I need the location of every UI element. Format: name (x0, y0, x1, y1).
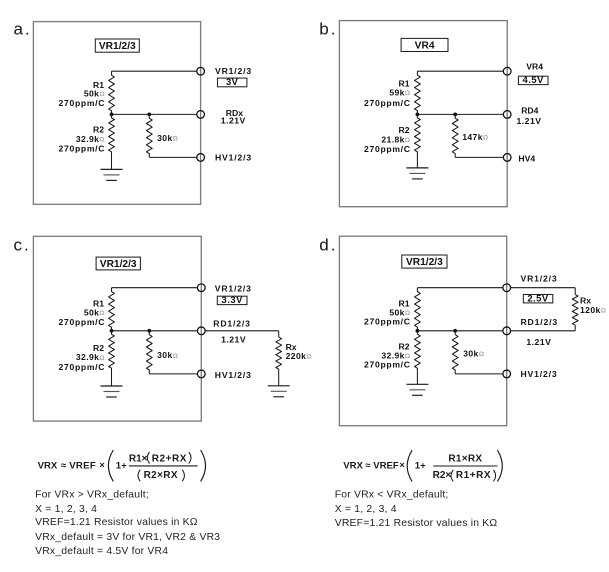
wire b 147k to HV (455, 156, 503, 158)
svg-text:VR4: VR4 (526, 62, 543, 72)
svg-text:VRX: VRX (38, 460, 58, 471)
terminal VR d (503, 284, 511, 292)
resistor R2 (32.9k) c (109, 331, 115, 386)
formula 1: VRX = VREF x (1 + R1x(R2+RX)/(R2xRX)) (38, 450, 206, 481)
svg-text:X = 1, 2, 3, 4: X = 1, 2, 3, 4 (35, 504, 97, 515)
svg-text:1+: 1+ (415, 460, 426, 471)
ground d (406, 384, 428, 395)
svg-text:HV1/2/3: HV1/2/3 (215, 152, 252, 162)
circuit c: outer box (33, 236, 201, 421)
circuit b: outer box (339, 21, 507, 207)
svg-text:3.3V: 3.3V (222, 294, 244, 305)
VR1/2/3 label d (402, 255, 447, 268)
ground a (101, 169, 123, 180)
svg-text:R1×: R1× (129, 454, 148, 465)
svg-text:VREF: VREF (69, 460, 96, 471)
circuit a: outer box (33, 22, 200, 205)
svg-text:VR1/2/3: VR1/2/3 (521, 274, 558, 284)
wire Rx top stub (d) (574, 288, 576, 295)
wire Rx top corner (c) (278, 331, 280, 337)
wire VR extension (d) (510, 287, 575, 289)
svg-text:270ppm/C: 270ppm/C (364, 98, 411, 108)
2.5V value box d (523, 292, 553, 303)
terminal HV a (197, 154, 205, 162)
svg-text:VRX: VRX (343, 460, 363, 471)
svg-text:R2×RX: R2×RX (144, 470, 178, 481)
svg-text:1.21V: 1.21V (221, 116, 246, 126)
svg-text:3V: 3V (226, 76, 239, 87)
svg-text:VR1/2/3: VR1/2/3 (100, 259, 137, 270)
svg-text:270ppm/C: 270ppm/C (59, 362, 106, 372)
svg-text:R1+RX: R1+RX (456, 470, 491, 481)
svg-text:For VRx > VRx_default;: For VRx > VRx_default; (35, 489, 149, 500)
ground external Rx (c) (268, 386, 290, 397)
svg-text:VREF=1.21 Resistor values in K: VREF=1.21 Resistor values in KΩ (335, 518, 498, 529)
wire a R1 top to VR (112, 70, 197, 72)
terminal RD b (503, 111, 511, 119)
svg-text:R2×: R2× (433, 470, 452, 481)
wire d 30k to HV (455, 373, 503, 375)
svg-text:HV1/2/3: HV1/2/3 (521, 369, 558, 379)
resistor 147k b (452, 114, 458, 157)
svg-text:c.: c. (14, 236, 31, 255)
svg-text:VRx_default = 4.5V for VR4: VRx_default = 4.5V for VR4 (35, 546, 168, 557)
wire Rx bottom stub (d) (574, 325, 576, 331)
resistor 30k c (146, 331, 152, 374)
resistor Rx 120k (d) (572, 295, 578, 326)
svg-text:X = 1, 2, 3, 4: X = 1, 2, 3, 4 (335, 504, 397, 515)
wire d mid rail RD (417, 330, 502, 332)
formula 2: VRX = VREF x (1 + R1xRX/(R2x(R1+RX))) (343, 450, 502, 481)
svg-text:1+: 1+ (116, 460, 127, 471)
svg-text:×: × (399, 460, 404, 470)
wire a 30k to HV (149, 156, 197, 158)
terminal RD a (197, 111, 205, 119)
svg-text:HV4: HV4 (518, 154, 535, 164)
wire RD extension (d) (510, 330, 575, 332)
svg-text:1.21V: 1.21V (526, 337, 551, 347)
svg-text:VR1/2/3: VR1/2/3 (99, 41, 136, 52)
svg-text:≈: ≈ (365, 460, 371, 471)
terminal RD c (197, 327, 205, 335)
resistor R2 (32.9k) d (415, 331, 421, 385)
svg-text:×: × (99, 460, 104, 470)
svg-text:270ppm/C: 270ppm/C (59, 144, 106, 154)
wire c R1 top to VR (112, 287, 198, 289)
svg-text:1.21V: 1.21V (517, 116, 542, 126)
svg-text:≈: ≈ (61, 460, 67, 471)
resistor R1 (59k) b (415, 71, 421, 114)
svg-text:VRx_default = 3V for VR1, VR2: VRx_default = 3V for VR1, VR2 & VR3 (35, 532, 220, 543)
resistor R2 (21.8k) b (415, 114, 421, 167)
svg-text:270ppm/C: 270ppm/C (59, 98, 106, 108)
wire b mid rail RD (417, 113, 503, 115)
wire d R1 top to VR (417, 287, 502, 289)
circuit d: outer box (339, 236, 506, 426)
ground b (406, 168, 428, 179)
VR4 label b (401, 38, 448, 51)
svg-text:For VRx < VRx_default;: For VRx < VRx_default; (335, 489, 449, 500)
note lines right column (335, 489, 498, 529)
svg-text:VR1/2/3: VR1/2/3 (406, 257, 443, 268)
svg-text:270ppm/C: 270ppm/C (59, 317, 106, 327)
wire Rx bottom (c) (278, 369, 280, 386)
svg-text:VREF=1.21 Resistor values in K: VREF=1.21 Resistor values in KΩ (35, 517, 198, 528)
4.5V value box b (518, 74, 548, 85)
svg-text:R1×RX: R1×RX (448, 454, 482, 465)
wire a mid rail RD (112, 113, 197, 115)
svg-text:R2+RX: R2+RX (152, 454, 187, 465)
3V value box a (218, 76, 247, 87)
svg-text:270ppm/C: 270ppm/C (364, 317, 411, 327)
wire c 30k to HV (149, 373, 197, 375)
svg-text:VR1/2/3: VR1/2/3 (215, 66, 252, 76)
wire RD1/2/3 extension (c) (205, 330, 279, 332)
svg-text:RD1/2/3: RD1/2/3 (213, 319, 250, 329)
svg-text:VR1/2/3: VR1/2/3 (215, 284, 252, 294)
svg-text:VREF: VREF (373, 460, 399, 471)
VR1/2/3 label a (95, 39, 139, 52)
svg-text:a.: a. (14, 19, 32, 38)
svg-text:270ppm/C: 270ppm/C (364, 144, 411, 154)
terminal HV b (503, 154, 511, 162)
node c tap junction (147, 329, 151, 333)
resistor R1 (50k) d (415, 288, 421, 331)
node d tap junction (453, 329, 457, 333)
resistor 30k a (146, 114, 152, 157)
svg-text:b.: b. (319, 19, 337, 38)
svg-text:VR4: VR4 (415, 40, 435, 51)
terminal VR c (197, 284, 205, 292)
svg-text:4.5V: 4.5V (523, 74, 545, 85)
svg-text:d.: d. (319, 236, 337, 255)
svg-text:RD1/2/3: RD1/2/3 (521, 317, 558, 327)
node a tap junction (147, 113, 151, 117)
node c R1/R2 junction (110, 329, 114, 333)
svg-text:1.21V: 1.21V (221, 334, 246, 344)
svg-text:270ppm/C: 270ppm/C (364, 360, 411, 370)
wire b R1 top to VR (417, 70, 503, 72)
ground c (101, 386, 123, 397)
resistor R2 (32.9k) a (109, 114, 115, 169)
resistor Rx 220k (c) (276, 337, 282, 369)
terminal VR b (503, 67, 511, 75)
resistor 30k d (452, 331, 458, 374)
node a R1/R2 junction (110, 113, 114, 117)
node b tap junction (453, 113, 457, 117)
terminal HV d (503, 370, 511, 378)
svg-text:RD4: RD4 (521, 106, 538, 116)
svg-text:HV1/2/3: HV1/2/3 (215, 370, 252, 380)
svg-text:2.5V: 2.5V (527, 292, 549, 303)
wire c mid rail RD (112, 330, 198, 332)
node d R1/R2 junction (416, 329, 420, 333)
terminal HV c (197, 370, 205, 378)
resistor R1 (50k) a (109, 71, 115, 114)
VR1/2/3 label c (96, 257, 140, 270)
resistor R1 (50k) c (109, 288, 115, 331)
3.3V value box c (217, 294, 247, 305)
terminal RD d (503, 327, 511, 335)
note lines left column (35, 489, 220, 557)
terminal VR a (197, 67, 205, 75)
node b R1/R2 junction (416, 113, 420, 117)
